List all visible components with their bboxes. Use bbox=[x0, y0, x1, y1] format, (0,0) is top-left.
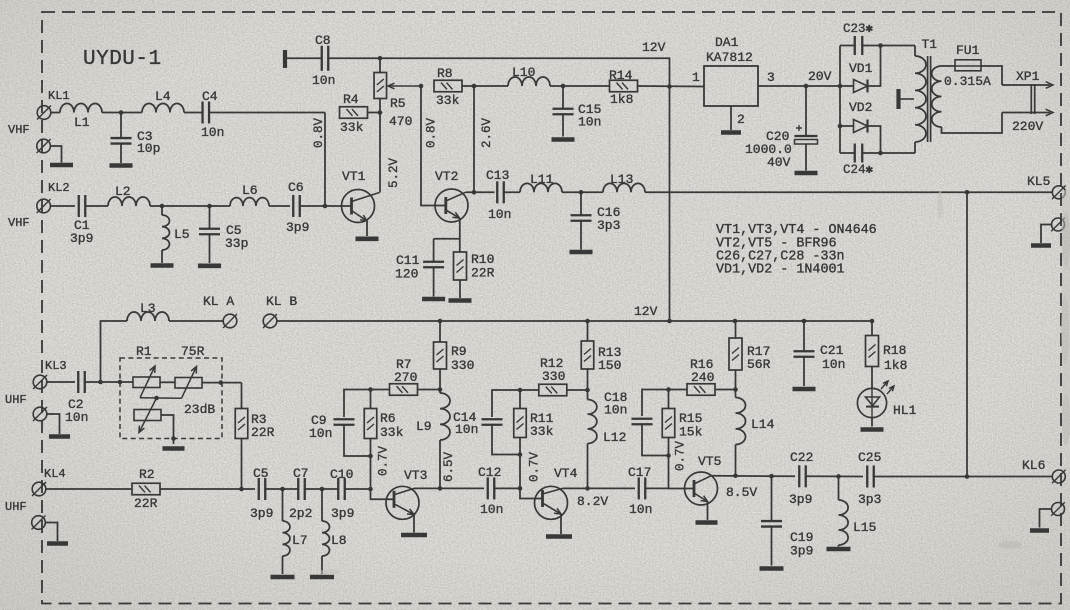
svg-text:5.2V: 5.2V bbox=[387, 157, 401, 188]
wire KL5 line bbox=[645, 191, 1052, 193]
ground DA1 bbox=[721, 130, 741, 135]
svg-text:1k8: 1k8 bbox=[884, 358, 907, 373]
svg-text:240: 240 bbox=[691, 370, 714, 385]
svg-text:75R: 75R bbox=[181, 344, 205, 359]
node L5 junction bbox=[160, 204, 165, 209]
wire L9 top bbox=[439, 390, 441, 394]
node C24-VD2 bbox=[878, 151, 883, 156]
wire R6 top bbox=[370, 390, 372, 409]
capacitor C20 plus bbox=[796, 125, 802, 131]
svg-text:10n: 10n bbox=[480, 502, 503, 517]
connector KL B bbox=[263, 314, 277, 328]
wire VT5 collector out bbox=[711, 475, 795, 478]
ground L7 bbox=[271, 575, 295, 580]
wire top 12V feed bbox=[380, 58, 670, 87]
wire top to C23 bbox=[840, 45, 854, 47]
svg-text:33k: 33k bbox=[380, 425, 404, 440]
svg-text:KL A: KL A bbox=[203, 294, 234, 309]
wire L12 bottom bbox=[587, 444, 589, 489]
wire C2 to R1 bbox=[85, 381, 133, 383]
resistor R5 trimmer bbox=[374, 73, 387, 99]
wire DA1 pin3 bbox=[758, 85, 840, 87]
capacitor C22 bbox=[799, 465, 806, 487]
svg-text:C25: C25 bbox=[858, 450, 881, 465]
wire C13 to L11 bbox=[504, 191, 520, 193]
svg-text:120: 120 bbox=[395, 267, 418, 282]
wire KL5 to KL6 vertical bbox=[966, 192, 968, 476]
svg-text:R9: R9 bbox=[451, 344, 467, 359]
wire C24 to T1 bbox=[862, 152, 915, 154]
svg-text:C5: C5 bbox=[253, 466, 269, 481]
wire C11 top bbox=[433, 239, 435, 262]
wire R6 column bbox=[371, 439, 395, 500]
resistor R6 bbox=[364, 409, 377, 439]
svg-text:10n: 10n bbox=[455, 422, 478, 437]
ground C19 bbox=[760, 566, 784, 571]
svg-text:KL1: KL1 bbox=[48, 89, 70, 103]
svg-text:T1: T1 bbox=[922, 37, 938, 52]
connector KL6 bbox=[1052, 470, 1066, 484]
IC DA1 box bbox=[704, 66, 758, 106]
wire C21 top bbox=[803, 321, 805, 352]
variable resistor R1.2 bbox=[175, 367, 202, 399]
capacitor C1 bbox=[79, 195, 86, 217]
wire C19 bottom bbox=[771, 527, 773, 566]
svg-text:10n: 10n bbox=[65, 410, 88, 425]
resistor R16 bbox=[687, 384, 715, 396]
capacitor C3 bbox=[111, 138, 132, 144]
resistor R17 bbox=[729, 338, 742, 370]
svg-text:R4: R4 bbox=[343, 92, 359, 107]
diode VD2 bbox=[854, 119, 868, 132]
wire R11 column bbox=[520, 438, 543, 499]
node KL6 branch bbox=[965, 474, 970, 479]
node L3 junction bbox=[98, 380, 103, 385]
wire VT2 collector out bbox=[466, 191, 495, 193]
svg-text:0.7V: 0.7V bbox=[674, 440, 688, 471]
wire KL4 gnd bbox=[45, 523, 57, 542]
inductor L4 bbox=[142, 104, 184, 113]
svg-text:330: 330 bbox=[451, 358, 474, 373]
capacitor C12 bbox=[488, 477, 495, 499]
wire C17 to R15 bbox=[646, 487, 669, 489]
svg-text:L5: L5 bbox=[174, 227, 190, 242]
wire R16 left bbox=[642, 390, 687, 417]
wire R16 right bbox=[715, 389, 736, 391]
wire C16 bottom bbox=[580, 221, 582, 250]
node VT3 col bbox=[438, 486, 443, 491]
svg-text:33k: 33k bbox=[436, 93, 460, 108]
svg-text:10p: 10p bbox=[137, 141, 160, 156]
ground VT4 bbox=[546, 534, 572, 539]
svg-text:40V: 40V bbox=[767, 155, 791, 170]
svg-text:2: 2 bbox=[737, 112, 745, 127]
svg-text:VT3: VT3 bbox=[404, 468, 427, 483]
ground L15 bbox=[827, 547, 851, 552]
wire VD2 cathode bbox=[868, 126, 881, 153]
svg-text:C8: C8 bbox=[315, 33, 331, 48]
ground C15 bbox=[552, 137, 575, 142]
svg-text:UYDU-1: UYDU-1 bbox=[83, 48, 162, 71]
svg-text:VT1: VT1 bbox=[342, 169, 366, 184]
svg-text:33k: 33k bbox=[340, 120, 364, 135]
capacitor C20 bbox=[795, 136, 818, 144]
variable resistor R1.1 bbox=[133, 366, 160, 398]
svg-text:15k: 15k bbox=[679, 425, 703, 440]
inductor L15 bbox=[839, 500, 849, 545]
transistor VT1 bbox=[342, 190, 380, 223]
wire KL3 gnd bbox=[47, 414, 60, 434]
wire KL3 to C2 bbox=[47, 381, 75, 383]
svg-text:3p9: 3p9 bbox=[70, 231, 93, 246]
svg-text:C4: C4 bbox=[202, 89, 218, 104]
attenuator R1 dashed box bbox=[120, 358, 222, 439]
wire R17 bottom bbox=[735, 370, 737, 390]
capacitor C18 part bbox=[632, 419, 653, 425]
svg-text:UHF: UHF bbox=[5, 393, 27, 407]
node R16-R17 bbox=[733, 387, 738, 392]
wire VT4 collector bbox=[563, 487, 636, 489]
svg-text:L9: L9 bbox=[416, 419, 432, 434]
capacitor C16 bbox=[571, 215, 592, 221]
wire R7 right bbox=[418, 389, 441, 391]
resistor R11 bbox=[514, 409, 527, 438]
fuse FU1 bbox=[955, 60, 981, 71]
ground KL4 bbox=[47, 541, 68, 546]
transistor VT4 bbox=[535, 486, 568, 519]
node VT1 base junction bbox=[323, 204, 328, 209]
wire R18 bottom bbox=[871, 367, 873, 389]
resistor R8 bbox=[434, 80, 462, 92]
capacitor C5a 33p bbox=[199, 229, 220, 235]
wire VT1 collector column bbox=[379, 113, 381, 193]
node R1 wiper bbox=[154, 396, 159, 401]
svg-text:270: 270 bbox=[394, 370, 417, 385]
wire VT2 collector column bbox=[473, 86, 475, 192]
svg-text:10n: 10n bbox=[312, 73, 335, 88]
node R1 gnd bbox=[171, 436, 176, 441]
node C8-R5 bbox=[378, 56, 383, 61]
wire HL1 bottom bbox=[871, 418, 873, 427]
wire L2 to L6 bbox=[150, 205, 230, 207]
svg-text:C24✱: C24✱ bbox=[843, 163, 874, 177]
svg-text:FU1: FU1 bbox=[956, 43, 980, 58]
wire R1.3 to gnd bbox=[161, 415, 174, 444]
wire XP1 upper prong bbox=[1002, 84, 1051, 86]
transistor VT2 bbox=[435, 189, 468, 222]
plug XP1 bars bbox=[1031, 84, 1034, 114]
capacitor C14 bbox=[482, 419, 503, 425]
svg-text:KL4: KL4 bbox=[44, 467, 66, 481]
svg-text:VD1,VD2 - 1N4001: VD1,VD2 - 1N4001 bbox=[716, 263, 845, 278]
wire R9 bottom bbox=[439, 369, 441, 390]
wire VD1 anode lead bbox=[840, 85, 853, 87]
wire FU1 to XP1 bbox=[981, 66, 1002, 85]
ground R10 bbox=[449, 298, 472, 303]
wire VT2 emitter bbox=[434, 218, 460, 239]
wire C16 top bbox=[580, 192, 582, 215]
svg-text:3p9: 3p9 bbox=[789, 492, 812, 507]
svg-text:8.2V: 8.2V bbox=[577, 494, 608, 509]
ground KL1 bbox=[50, 163, 73, 168]
capacitor C24 bbox=[855, 144, 863, 163]
svg-text:0.8V: 0.8V bbox=[425, 117, 439, 148]
node L15 bbox=[836, 474, 841, 479]
svg-text:0.7V: 0.7V bbox=[528, 451, 542, 482]
wire VD2 anode lead bbox=[840, 125, 853, 127]
inductor L8 bbox=[322, 521, 329, 556]
wire R8 to L10 bbox=[474, 85, 508, 87]
svg-text:C17: C17 bbox=[628, 465, 651, 480]
wire VT5 emitter bbox=[707, 502, 709, 521]
ground HL1 bbox=[861, 427, 884, 432]
svg-text:220V: 220V bbox=[1012, 119, 1043, 134]
wire R5 bottom bbox=[379, 99, 381, 113]
wire KL5 gnd bbox=[1041, 225, 1052, 244]
wire C21 bottom bbox=[803, 357, 805, 387]
svg-text:10n: 10n bbox=[604, 403, 627, 418]
wire C18 bottom bbox=[642, 424, 669, 455]
node 12V-DA1 bbox=[667, 84, 672, 89]
ground VT1 bbox=[356, 237, 379, 242]
wire C11 bottom bbox=[433, 267, 435, 297]
svg-text:0.315A: 0.315A bbox=[944, 74, 991, 89]
wire L8 bottom bbox=[321, 556, 323, 574]
wire DA1 pin2 bbox=[730, 106, 732, 130]
thick tab C8 left bbox=[283, 50, 287, 68]
svg-text:VHF: VHF bbox=[8, 123, 30, 137]
svg-text:10n: 10n bbox=[309, 426, 332, 441]
wiper arrow line R5-R8 bbox=[389, 85, 421, 87]
node 2.6V top bbox=[472, 84, 477, 89]
node R1 left bbox=[118, 380, 123, 385]
wiper arrowhead bbox=[388, 83, 394, 89]
connector KL2 bbox=[37, 199, 51, 213]
svg-text:0.8V: 0.8V bbox=[312, 117, 326, 148]
wire R5 top bbox=[379, 58, 381, 72]
svg-text:L12: L12 bbox=[603, 430, 626, 445]
connector KL1 ground bbox=[37, 139, 51, 153]
wire L14 top bbox=[735, 390, 737, 398]
ground C11 bbox=[422, 297, 445, 302]
ground KL5 bbox=[1031, 243, 1051, 248]
svg-text:R18: R18 bbox=[883, 343, 906, 358]
svg-text:C22: C22 bbox=[790, 450, 813, 465]
svg-text:C21: C21 bbox=[820, 343, 844, 358]
svg-text:R6: R6 bbox=[380, 411, 396, 426]
node C10-R6 bbox=[368, 487, 373, 492]
svg-text:KL6: KL6 bbox=[1022, 458, 1045, 473]
wire L6 to C6 bbox=[269, 205, 290, 207]
T1 core adjust tab bbox=[899, 89, 915, 109]
wiper bus R1 bbox=[140, 397, 182, 400]
svg-text:1: 1 bbox=[692, 70, 700, 85]
connector KL3 ground bbox=[33, 407, 47, 421]
svg-text:R1: R1 bbox=[136, 344, 152, 359]
XP1 arrow lower bbox=[1046, 109, 1053, 116]
wire bottom to C24 bbox=[840, 152, 854, 154]
transformer T1 primary bbox=[915, 56, 926, 142]
svg-text:L11: L11 bbox=[530, 172, 554, 187]
wire R13 top bbox=[587, 321, 589, 341]
wire VT1 emitter bbox=[366, 221, 368, 236]
capacitor C17 bbox=[639, 477, 646, 499]
wire R11 top bbox=[519, 390, 521, 409]
wire L3 to KLA bbox=[169, 320, 223, 322]
svg-text:R8: R8 bbox=[437, 66, 453, 81]
node KL5 branch bbox=[965, 190, 970, 195]
svg-text:VT2: VT2 bbox=[435, 169, 458, 184]
variable resistor R1.3 bbox=[134, 398, 161, 433]
svg-text:1k8: 1k8 bbox=[610, 92, 633, 107]
wire L11 to L13 bbox=[562, 191, 603, 193]
svg-text:C13: C13 bbox=[486, 168, 509, 183]
node C9-R6 bbox=[368, 454, 373, 459]
ground C3 bbox=[110, 163, 133, 168]
capacitor C21 bbox=[794, 351, 815, 357]
wire C3 lower bbox=[120, 144, 122, 164]
svg-text:XP1: XP1 bbox=[1016, 69, 1040, 84]
transformer T1 secondary bbox=[932, 66, 942, 127]
wire R7 left bbox=[344, 390, 390, 418]
resistor R3 bbox=[235, 409, 248, 439]
wire R12 left bbox=[492, 390, 539, 417]
ground R1 bbox=[163, 446, 185, 451]
node L8 bbox=[320, 487, 325, 492]
wire C23 to T1 bbox=[862, 45, 915, 47]
inductor L7 bbox=[283, 521, 290, 556]
wire L12 top bbox=[587, 390, 589, 400]
svg-text:10n: 10n bbox=[488, 207, 511, 222]
svg-text:VD1: VD1 bbox=[849, 61, 873, 76]
node C23-VD1 bbox=[878, 43, 883, 48]
wire tab to C8 bbox=[287, 57, 322, 59]
wire R1.1-R1.2 bbox=[160, 381, 175, 383]
wire R4 right bbox=[368, 112, 381, 114]
svg-text:R14: R14 bbox=[609, 68, 633, 83]
inductor L2 bbox=[108, 197, 150, 206]
node 20V bbox=[804, 84, 809, 89]
svg-text:10n: 10n bbox=[201, 125, 224, 140]
capacitor C23 bbox=[855, 36, 863, 55]
svg-text:8.5V: 8.5V bbox=[726, 485, 757, 500]
node C14-R11 bbox=[518, 452, 523, 457]
wire emitter to R10 bbox=[459, 239, 461, 252]
decorative smudge 1 bbox=[320, 190, 1070, 586]
wire R17 top bbox=[735, 321, 737, 338]
capacitor C7 bbox=[298, 478, 305, 500]
svg-text:C23✱: C23✱ bbox=[843, 22, 874, 36]
svg-text:R5: R5 bbox=[390, 96, 406, 111]
node R12-R13 bbox=[585, 388, 590, 393]
wire VT3 collector bbox=[414, 487, 484, 489]
svg-text:10n: 10n bbox=[578, 115, 601, 130]
svg-text:2p2: 2p2 bbox=[289, 506, 312, 521]
wire L5 top bbox=[161, 206, 163, 215]
wire L9 bottom bbox=[439, 440, 441, 488]
node VT2 collector bbox=[472, 190, 477, 195]
svg-text:L7: L7 bbox=[292, 533, 308, 548]
capacitor C2 bbox=[78, 371, 85, 393]
wire R15 column bbox=[669, 438, 695, 489]
wire 12V column bbox=[669, 87, 671, 322]
wire R2 to C5 bbox=[160, 488, 255, 490]
svg-text:22R: 22R bbox=[134, 496, 158, 511]
wire L14 bottom bbox=[735, 445, 737, 476]
svg-text:L6: L6 bbox=[242, 183, 258, 198]
svg-text:C12: C12 bbox=[478, 465, 501, 480]
capacitor C5 bbox=[259, 478, 266, 500]
inductor L13 bbox=[603, 183, 645, 192]
wire R8 right bbox=[462, 85, 474, 87]
svg-text:22R: 22R bbox=[251, 425, 275, 440]
svg-text:12V: 12V bbox=[634, 304, 658, 319]
wire C5 to C7 bbox=[266, 488, 298, 490]
svg-text:150: 150 bbox=[598, 358, 621, 373]
resistor R9 bbox=[434, 342, 447, 369]
svg-text:3p9: 3p9 bbox=[790, 544, 813, 559]
wire C12 to R11 bbox=[495, 487, 520, 489]
inductor L9 bbox=[440, 393, 450, 440]
node C3 junction bbox=[119, 110, 124, 115]
wire C14 bottom bbox=[492, 425, 520, 455]
node C15 bbox=[561, 84, 566, 89]
capacitor C25 bbox=[867, 466, 874, 488]
node rail R9 bbox=[438, 319, 443, 324]
resistor R15 bbox=[662, 409, 675, 438]
node C18-R15 bbox=[666, 453, 671, 458]
wire R3 bottom bbox=[241, 439, 243, 490]
svg-text:3p3: 3p3 bbox=[597, 218, 620, 233]
svg-text:330: 330 bbox=[542, 369, 565, 384]
wire C8 to 12V corner bbox=[329, 57, 381, 59]
svg-text:UHF: UHF bbox=[5, 500, 27, 514]
svg-text:L3: L3 bbox=[140, 301, 156, 316]
node R3 bottom bbox=[239, 487, 244, 492]
inductor L10 bbox=[508, 77, 550, 86]
connector KL1 bbox=[37, 106, 51, 120]
svg-text:C6: C6 bbox=[288, 180, 304, 195]
wire C5a lower bbox=[209, 235, 211, 264]
resistor R2 bbox=[132, 483, 160, 495]
capacitor C6 bbox=[293, 195, 300, 217]
node VD1 anode bbox=[838, 84, 843, 89]
wire C20 bottom bbox=[805, 144, 807, 171]
inductor L5 bbox=[162, 215, 169, 250]
svg-text:L8: L8 bbox=[331, 533, 347, 548]
svg-text:C7: C7 bbox=[293, 466, 309, 481]
wire C1 to L2 bbox=[86, 205, 109, 207]
wire R9 top bbox=[439, 321, 441, 342]
ground L8 bbox=[310, 575, 334, 580]
ground KL6 bbox=[1030, 528, 1049, 533]
node R4-R5 bbox=[378, 110, 383, 115]
capacitor C9 bbox=[334, 419, 355, 425]
svg-text:23dB: 23dB bbox=[184, 402, 215, 417]
capacitor C10 bbox=[338, 478, 345, 500]
wire 12V rail bbox=[277, 320, 872, 322]
transistor VT5 bbox=[685, 472, 718, 505]
LED HL1 bbox=[857, 381, 894, 418]
svg-text:L10: L10 bbox=[512, 65, 535, 80]
node R8 left bbox=[419, 84, 424, 89]
capacitor C19 bbox=[761, 521, 782, 527]
svg-text:33k: 33k bbox=[530, 424, 554, 439]
wire 0.8V column bbox=[324, 113, 326, 207]
node VD2 anode bbox=[838, 124, 843, 129]
diode VD1 bbox=[854, 79, 868, 92]
connector KL A bbox=[223, 314, 237, 328]
